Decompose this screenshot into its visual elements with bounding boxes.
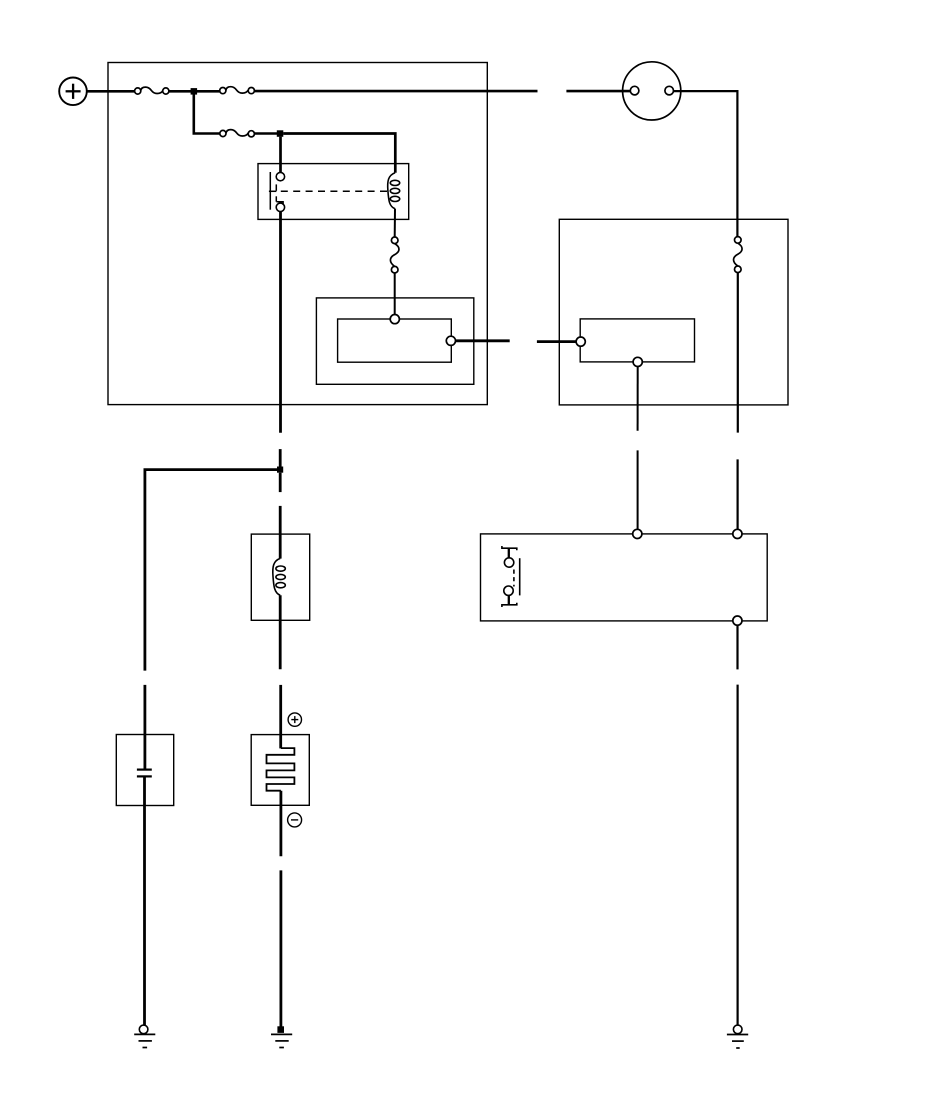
wire to battery after break (279, 685, 282, 749)
wire J3 branch left and down to capacitor (145, 470, 280, 671)
ground G1 (134, 1034, 155, 1047)
wire right module down (637, 367, 639, 431)
wire B+ to fuse F1 (87, 90, 135, 93)
relay coil (388, 173, 400, 209)
wire J3 down segment (279, 473, 282, 492)
control module inner box (338, 319, 452, 362)
fuse F2 (220, 87, 255, 94)
wire after break to bottom box (637, 450, 639, 529)
wire after break to bottom box (736, 459, 738, 529)
wire solenoid down (279, 595, 282, 669)
wire battery down (279, 791, 282, 857)
wire to solenoid after break (279, 506, 282, 559)
battery BAT plates (267, 748, 295, 791)
wire relay contact down (long feed) (279, 212, 282, 433)
wire capacitor feed after break (143, 685, 146, 769)
terminal on module right (446, 336, 455, 345)
wire module to connector break (456, 339, 510, 342)
terminal right module left (576, 337, 585, 346)
wire motor to right unit (674, 91, 738, 237)
ground G2 (271, 1034, 292, 1047)
terminal switch box top left (633, 529, 642, 538)
battery positive terminal B+ (59, 78, 87, 106)
fuse F1 (135, 87, 169, 94)
capacitor box (116, 735, 173, 806)
battery minus mark (288, 813, 302, 827)
wire break to right unit (537, 340, 576, 343)
wire capacitor to ground (143, 776, 146, 1025)
wire F1 to junction (169, 90, 194, 93)
solenoid coil L1 (273, 558, 286, 595)
ground G3 (727, 1035, 748, 1049)
wire connector break to motor (566, 90, 630, 93)
fuse/relay box (108, 63, 487, 405)
terminal switch box top right (733, 529, 742, 538)
terminal right module bottom (633, 357, 642, 366)
control module outer box (316, 298, 473, 384)
capacitor C1 plates (137, 770, 152, 777)
wire F3 to junction J2 (254, 132, 280, 135)
wire junction to fuse F2 (197, 90, 220, 93)
relay contact terminal top (276, 172, 284, 180)
ground G2 terminal (277, 1026, 284, 1033)
battery plus mark (288, 713, 301, 726)
wire junction J1 down to fuse F3 (194, 94, 220, 134)
switch unit box (481, 534, 768, 621)
terminal on module top (390, 315, 399, 324)
junction J3 (277, 467, 283, 473)
right unit box (559, 219, 788, 405)
wire after break to junction J3 (279, 449, 282, 470)
relay contact terminal bottom (276, 203, 284, 211)
fuse F3 (220, 130, 255, 137)
relay K1 box (258, 164, 409, 220)
junction J1 (191, 88, 198, 95)
connector C2 (390, 237, 399, 273)
battery box (251, 735, 309, 806)
junction J2 (277, 130, 284, 137)
wire switch box down (736, 625, 738, 669)
right unit inner module box (580, 319, 694, 362)
wire relay coil to connector C2 (394, 209, 396, 237)
pushbutton switch S1 (502, 546, 520, 607)
relay linkage dashed (281, 190, 388, 192)
wire J2 down to relay contact (279, 137, 282, 173)
wire connector C2 to control module (394, 273, 396, 315)
wire after break to ground G3 (736, 685, 738, 1026)
wire J2 to relay coil feed (283, 134, 395, 173)
ground G3 terminal (733, 1025, 742, 1034)
connector C3 (734, 237, 743, 273)
wire C3 down through right unit (737, 273, 739, 433)
terminal switch box bottom (733, 616, 742, 625)
wire F2 to connector break (254, 90, 537, 93)
ground G1 terminal (139, 1025, 148, 1034)
wire battery ground after break (279, 870, 282, 1027)
motor M1 (two-terminal device) (623, 62, 681, 120)
solenoid box (251, 534, 309, 620)
relay contact armature (269, 172, 283, 210)
